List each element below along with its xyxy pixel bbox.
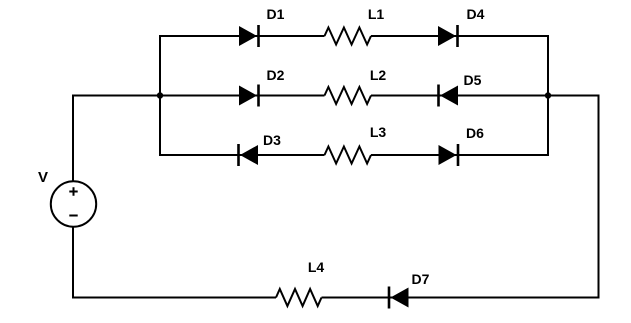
svg-text:L3: L3 bbox=[370, 124, 387, 140]
svg-text:D6: D6 bbox=[466, 125, 484, 141]
svg-text:D3: D3 bbox=[263, 132, 281, 148]
svg-text:L4: L4 bbox=[308, 259, 325, 275]
svg-text:L1: L1 bbox=[368, 6, 385, 22]
svg-text:D2: D2 bbox=[267, 67, 285, 83]
svg-text:V: V bbox=[38, 169, 48, 186]
svg-text:D1: D1 bbox=[267, 6, 285, 22]
svg-text:D5: D5 bbox=[464, 72, 482, 88]
svg-text:L2: L2 bbox=[370, 67, 387, 83]
svg-text:D4: D4 bbox=[467, 6, 485, 22]
svg-text:D7: D7 bbox=[412, 271, 430, 287]
